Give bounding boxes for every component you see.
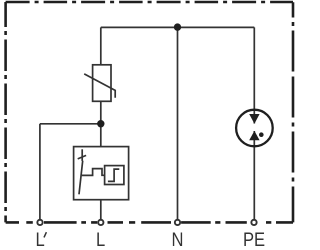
varistor RV1 body — [93, 65, 111, 102]
border bottom edge segments — [6, 221, 293, 224]
wire PE leg upper — [253, 27, 255, 123]
label L' prime tick — [44, 232, 46, 237]
svg-text:L: L — [36, 229, 45, 250]
varistor RV1 diagonal stroke — [84, 74, 115, 98]
border left edge — [4, 2, 7, 222]
spark gap lower electrode arrow — [249, 131, 259, 140]
spark gap F1 circle — [236, 110, 273, 147]
wire L' leg down — [39, 124, 41, 220]
wire varistor to junction — [100, 101, 102, 124]
wire junction to L' branch — [40, 123, 101, 125]
switch post inside U1 — [81, 149, 83, 161]
terminal L — [98, 220, 103, 225]
terminal PE — [251, 220, 256, 225]
disconnect monitor box U1 — [74, 147, 129, 200]
spark gap upper electrode arrow — [249, 114, 259, 124]
step glyph inside sub-box — [108, 169, 119, 181]
node junction dot at N on top bus — [174, 23, 181, 30]
wire box to terminal L — [100, 200, 102, 220]
border right edge — [292, 2, 295, 222]
wire PE leg lower — [253, 131, 255, 219]
node junction dot at L branch — [97, 120, 104, 127]
svg-text:L: L — [96, 229, 105, 250]
border frame (dash-dot enclosure) — [6, 2, 293, 222]
svg-text:PE: PE — [243, 229, 265, 250]
indicator sub-box — [105, 166, 124, 185]
pulse signal trace — [82, 169, 105, 176]
border top edge — [6, 1, 293, 4]
spark gap trigger dot — [259, 132, 264, 137]
terminal N — [175, 220, 180, 225]
wire junction to disconnect box — [100, 124, 102, 147]
wire top bus — [101, 26, 255, 28]
switch blade — [79, 161, 83, 195]
switch actuator tick — [78, 155, 86, 159]
wire N leg — [177, 27, 179, 219]
wire L leg top — [100, 27, 102, 64]
terminal L' — [37, 220, 42, 225]
svg-text:N: N — [172, 229, 184, 250]
